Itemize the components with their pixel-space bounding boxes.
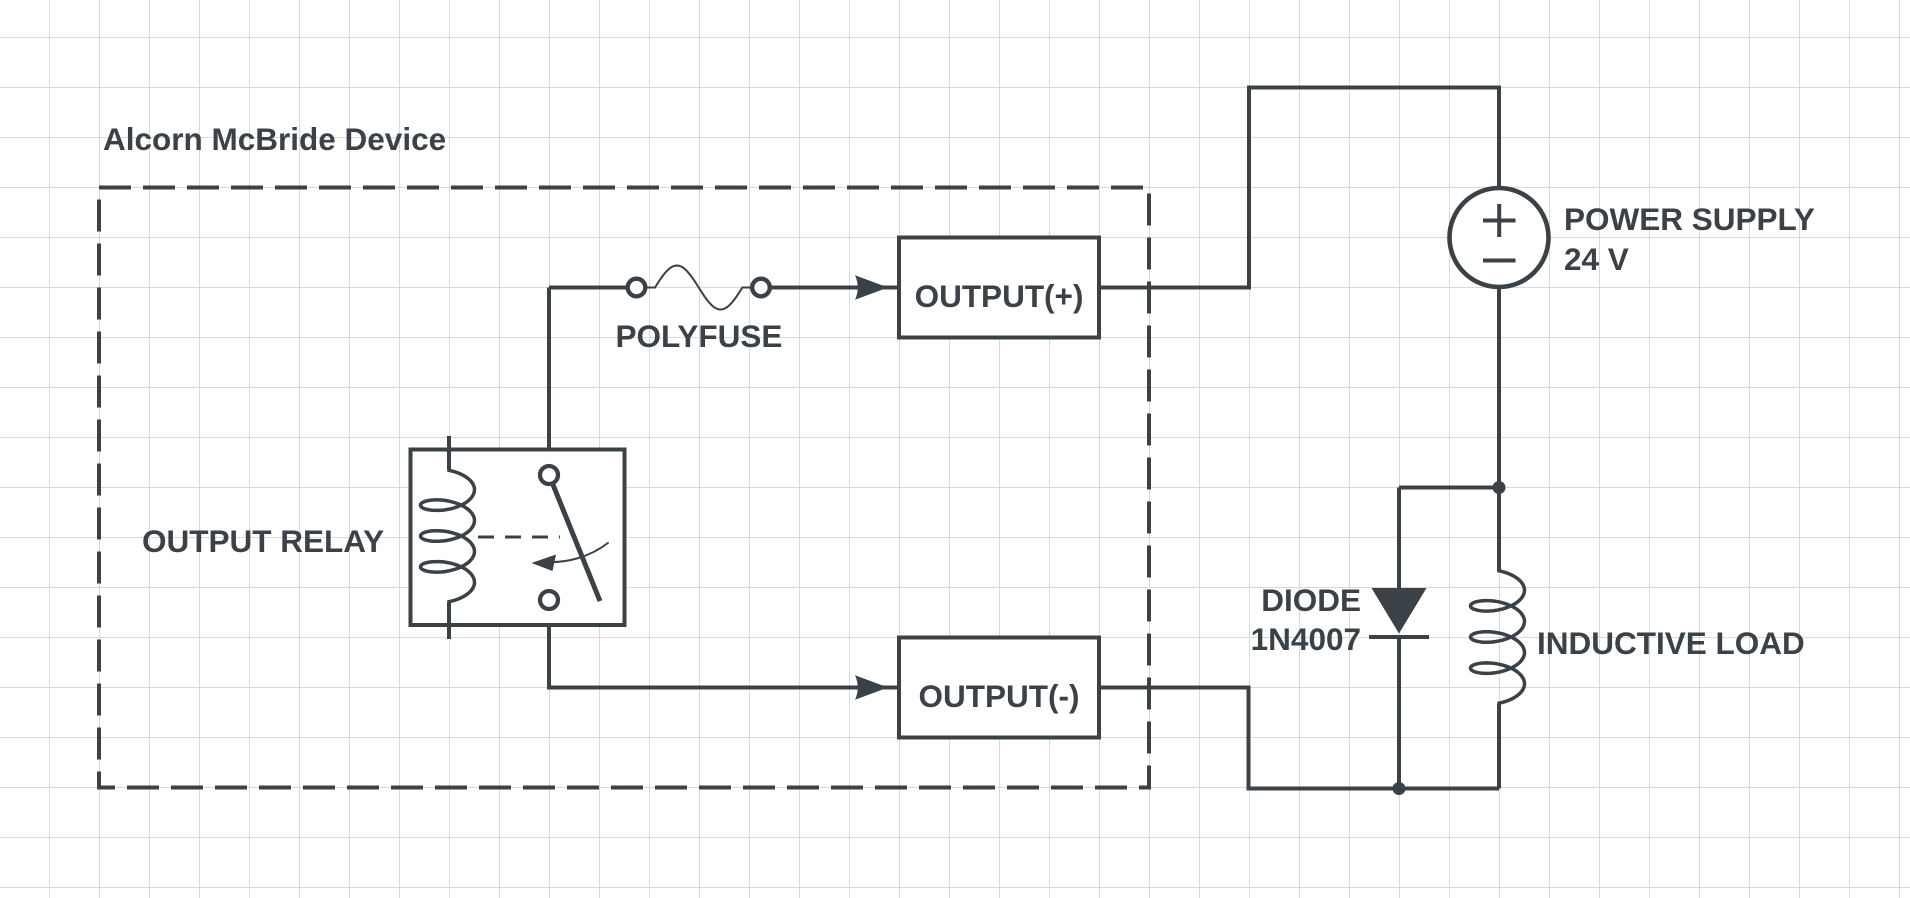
svg-text:DIODE: DIODE (1261, 582, 1361, 618)
svg-text:OUTPUT RELAY: OUTPUT RELAY (142, 523, 384, 559)
svg-text:1N4007: 1N4007 (1251, 621, 1361, 657)
svg-text:24 V: 24 V (1564, 241, 1629, 277)
svg-text:POLYFUSE: POLYFUSE (616, 318, 783, 354)
svg-text:OUTPUT(-): OUTPUT(-) (919, 678, 1080, 714)
svg-text:POWER SUPPLY: POWER SUPPLY (1564, 201, 1815, 237)
svg-text:OUTPUT(+): OUTPUT(+) (915, 278, 1084, 314)
svg-text:Alcorn McBride Device: Alcorn McBride Device (103, 121, 446, 157)
svg-text:INDUCTIVE LOAD: INDUCTIVE LOAD (1537, 625, 1805, 661)
